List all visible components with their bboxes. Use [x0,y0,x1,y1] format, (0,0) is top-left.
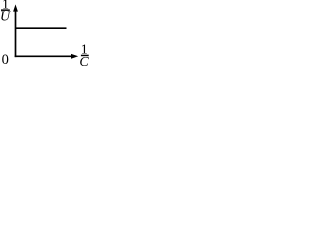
svg-text:C: C [79,55,89,70]
svg-text:0: 0 [2,52,9,68]
svg-text:U: U [0,9,11,24]
